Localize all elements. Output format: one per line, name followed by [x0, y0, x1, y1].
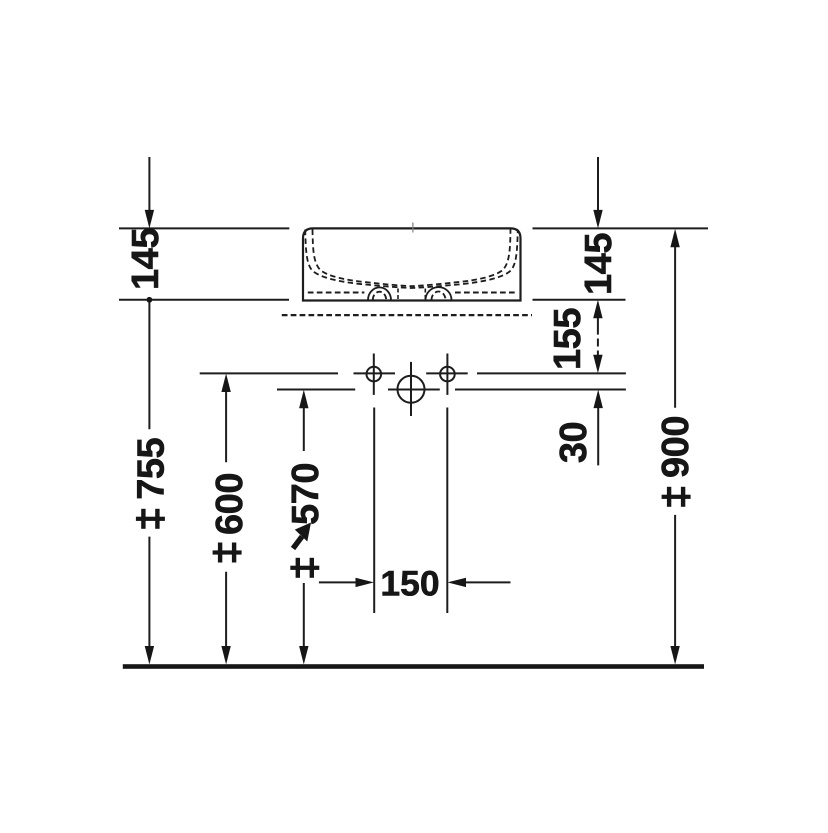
svg-text:755: 755 [130, 437, 172, 499]
svg-text:150: 150 [380, 564, 439, 604]
svg-text:570: 570 [285, 463, 327, 525]
svg-text:900: 900 [655, 416, 697, 478]
svg-text:145: 145 [578, 233, 620, 295]
svg-text:145: 145 [125, 228, 167, 290]
svg-text:600: 600 [209, 473, 251, 535]
svg-text:30: 30 [553, 422, 595, 463]
svg-text:155: 155 [547, 308, 589, 370]
